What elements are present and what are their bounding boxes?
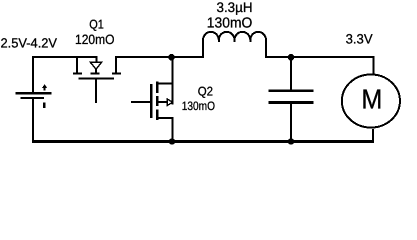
svg-text:Q2: Q2 (198, 85, 213, 99)
transistor Q1 body contact bar (91, 73, 100, 75)
wire: motor bottom lead (372, 129, 374, 143)
transistor Q1 gate lead (95, 80, 97, 103)
transistor Q2 drain tap (157, 83, 173, 85)
wire: battery negative lead down (32, 99, 34, 142)
wire: switch node down to Q2 drain (172, 56, 174, 104)
transistor Q1 source contact bar (73, 73, 82, 75)
transistor Q1 source lead (76, 56, 78, 72)
svg-text:M: M (361, 84, 382, 115)
inductor L1 left lead (202, 39, 204, 57)
svg-text:130mO: 130mO (207, 15, 253, 31)
svg-text:Q1: Q1 (89, 18, 104, 32)
transistor Q1 body diode triangle (90, 62, 101, 69)
battery BT1 negative plate (21, 97, 45, 99)
transistor Q1 body diode stem top (96, 56, 98, 62)
inductor L1 winding arcs (203, 32, 266, 40)
battery BT1 plus sign (44, 86, 46, 91)
transistor Q2 source tap (157, 117, 173, 119)
battery BT1 positive plate (15, 92, 51, 95)
transistor Q2 body diode triangle (167, 99, 172, 106)
transistor Q1 drain lead (115, 56, 117, 72)
inductor L1 winding cusp ticks (219, 39, 251, 42)
node: Q2 source junction dot (169, 138, 176, 145)
capacitor C1 bottom lead (290, 104, 292, 143)
transistor Q2 channel segment top (156, 82, 158, 94)
transistor Q1 gate bar (79, 78, 115, 80)
svg-text:2.5V-4.2V: 2.5V-4.2V (1, 36, 58, 51)
transistor Q2 body tap (157, 101, 167, 103)
transistor Q1 drain contact bar (112, 73, 121, 75)
svg-text:3.3V: 3.3V (346, 32, 373, 47)
transistor Q2 channel segment middle (156, 96, 158, 106)
transistor Q2 channel segment bottom (156, 110, 158, 121)
capacitor C1 bottom plate (268, 101, 313, 104)
node: output node junction dot (288, 54, 295, 61)
wire: top rail from inductor to motor (265, 56, 374, 58)
svg-text:130mO: 130mO (182, 99, 215, 113)
node: capacitor ground junction dot (288, 138, 295, 145)
capacitor C1 top lead (290, 56, 292, 89)
node: switch node junction dot (168, 54, 175, 61)
capacitor C1 top plate (268, 90, 313, 93)
battery BT1 negative tick (43, 103, 46, 109)
wire: motor top lead (373, 56, 375, 74)
svg-text:3.3µH: 3.3µH (217, 0, 253, 15)
motor M1 circle (342, 74, 400, 127)
wire: ground rail (32, 140, 374, 143)
wire: top rail from Q1 drain to inductor (115, 56, 204, 58)
transistor Q2 gate lead (131, 101, 152, 103)
transistor Q1 body diode stem bottom (95, 69, 97, 73)
inductor L1 right lead (265, 39, 267, 57)
svg-text:120mO: 120mO (75, 32, 115, 47)
wire: battery positive lead up and top rail to Q1 source/body (33, 57, 98, 92)
transistor Q2 gate bar (150, 84, 152, 118)
wire: Q2 source down to ground rail (172, 117, 174, 142)
